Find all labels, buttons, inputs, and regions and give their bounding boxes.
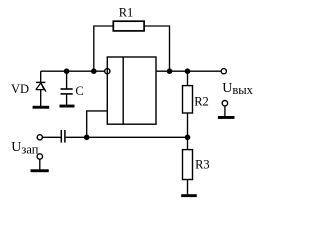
wire: top rail from VD corner to bubble — [41, 70, 105, 72]
wire: R1 right lead loop — [144, 26, 169, 71]
wire: R3 top lead — [187, 137, 189, 149]
terminal: Uzap input — [37, 135, 42, 140]
pin bubble: inverting trigger input — [105, 69, 110, 74]
resistor R2 — [183, 86, 193, 113]
zener diode VD — [36, 82, 46, 91]
node: R2/R3 junction — [185, 135, 191, 141]
wire: C bottom lead to ground — [66, 95, 68, 106]
wire: R2 bottom lead — [187, 113, 189, 137]
node: R1 right tap on output wire — [167, 68, 173, 74]
junction dots — [64, 68, 191, 140]
node: C tap on rail — [64, 68, 70, 74]
op-amp block U1 (one-shot body) — [107, 57, 156, 124]
wire: box output to Uvyh terminal — [156, 70, 221, 72]
svg-text:R2: R2 — [194, 95, 209, 109]
resistor R3 — [183, 150, 193, 180]
wire: Uvyh lower terminal stub to ground — [224, 106, 226, 116]
capacitor C (shunt) — [61, 89, 73, 94]
svg-text:C: C — [75, 84, 83, 98]
wire: second input riser and entry to box — [87, 111, 108, 137]
svg-text:Uзап: Uзап — [11, 140, 38, 156]
terminal: Uzap return — [37, 154, 42, 159]
wire: box internal divider — [122, 57, 124, 124]
wire: Uzap terminal to coupling cap — [42, 136, 60, 138]
ground: under Uvyh return terminal — [218, 116, 235, 119]
svg-text:Uвых: Uвых — [222, 81, 253, 97]
wire: R3 bottom lead to ground — [187, 180, 189, 195]
node: R2 tap on output wire — [185, 68, 191, 74]
node: trigger junction — [84, 135, 90, 141]
svg-text:R3: R3 — [195, 158, 210, 172]
svg-text:VD: VD — [11, 82, 29, 96]
ground: under C — [60, 105, 75, 108]
wire: Uzap lower terminal stub to ground — [39, 159, 41, 169]
wire: VD branch down from rail corner — [40, 71, 42, 82]
wire: VD to ground — [40, 90, 42, 107]
wire: R2 top lead — [187, 71, 189, 85]
node: R1 left tap on rail — [91, 68, 97, 74]
svg-text:R1: R1 — [119, 6, 134, 20]
wire: coupling cap to R2/R3 junction — [66, 136, 188, 138]
resistor R1 — [113, 21, 144, 31]
terminal: Uvyh return — [222, 101, 227, 106]
terminal: Uvyh output — [221, 69, 226, 74]
ground: under VD — [33, 106, 50, 109]
capacitor: coupling cap at trigger input — [61, 130, 65, 143]
ground: under R3 — [181, 194, 197, 197]
ground: under Uzap return terminal — [31, 169, 49, 172]
wire: R1 left lead loop — [94, 26, 114, 71]
wire: C branch down from rail — [66, 71, 68, 88]
